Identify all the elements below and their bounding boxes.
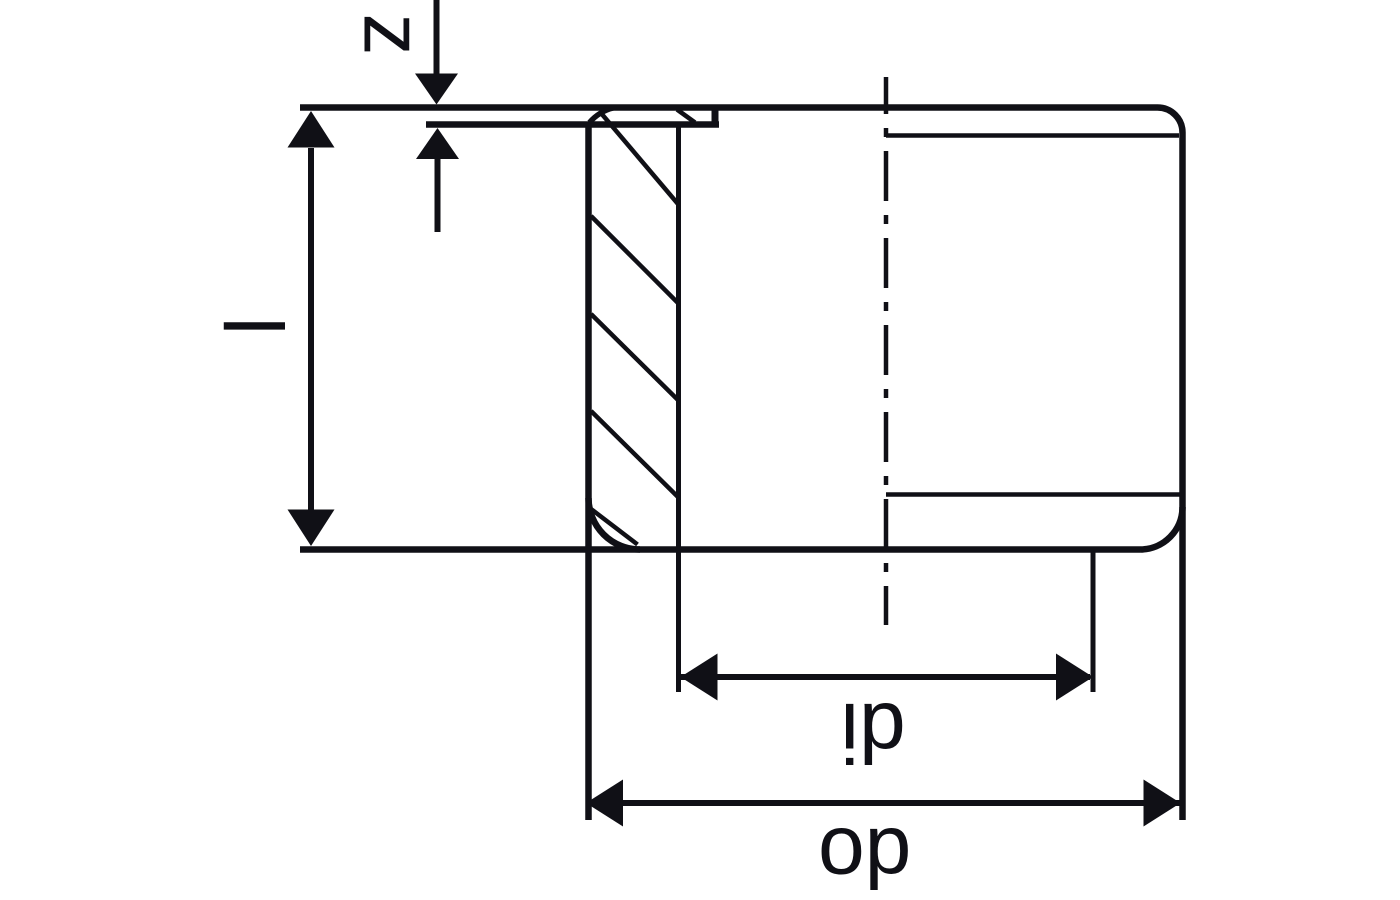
dimension do left arrow — [586, 780, 623, 827]
inner bore wall E (also di left extension line) — [676, 122, 681, 692]
bottom-left corner fillet arc — [589, 498, 641, 550]
svg-text:z: z — [346, 14, 440, 56]
socket mouth face line B (z lower extension + lip face) — [426, 121, 719, 128]
dimension di line — [681, 674, 1090, 680]
dimension z bottom leader stem — [435, 158, 441, 232]
hatch line h3 — [591, 314, 678, 400]
dimension do line — [588, 800, 1181, 806]
lip step stub — [712, 108, 719, 128]
dimension di left arrow — [681, 654, 718, 701]
left outer wall C (also do left extension line) — [585, 123, 592, 820]
mouth lip fillet arc — [590, 108, 614, 123]
outer top face line (cap outer surface + l/z extension), with top-right rounded corner into right wall — [300, 108, 1183, 821]
dimension di right arrow — [1056, 654, 1093, 701]
dimension l top arrow — [288, 111, 335, 148]
hatch line h5 (clipped by fillet) — [591, 509, 638, 545]
svg-text:l: l — [206, 317, 300, 336]
dimension di right extension line — [1091, 551, 1096, 692]
vertical centerline (dash-dot) — [884, 77, 889, 625]
hatch line h0 (lip band) — [677, 110, 695, 123]
inner cavity top line G — [886, 133, 1179, 138]
hatch line h4 — [591, 411, 678, 497]
dimension z top arrow — [415, 74, 458, 105]
bottom face line D — [300, 546, 1141, 553]
svg-text:di: di — [840, 686, 905, 780]
hatch line h1 — [601, 113, 679, 205]
dimension z bottom arrow — [416, 128, 459, 159]
dimension do right arrow — [1144, 780, 1181, 827]
dimension z top leader stem — [434, 0, 440, 74]
svg-text:do: do — [818, 811, 911, 900]
hatch line h2 — [591, 216, 678, 303]
dimension l bottom arrow — [288, 510, 335, 547]
inner cavity bottom line H — [886, 492, 1182, 497]
bottom-right outer corner arc — [1141, 507, 1183, 550]
dimension l line — [308, 148, 314, 510]
